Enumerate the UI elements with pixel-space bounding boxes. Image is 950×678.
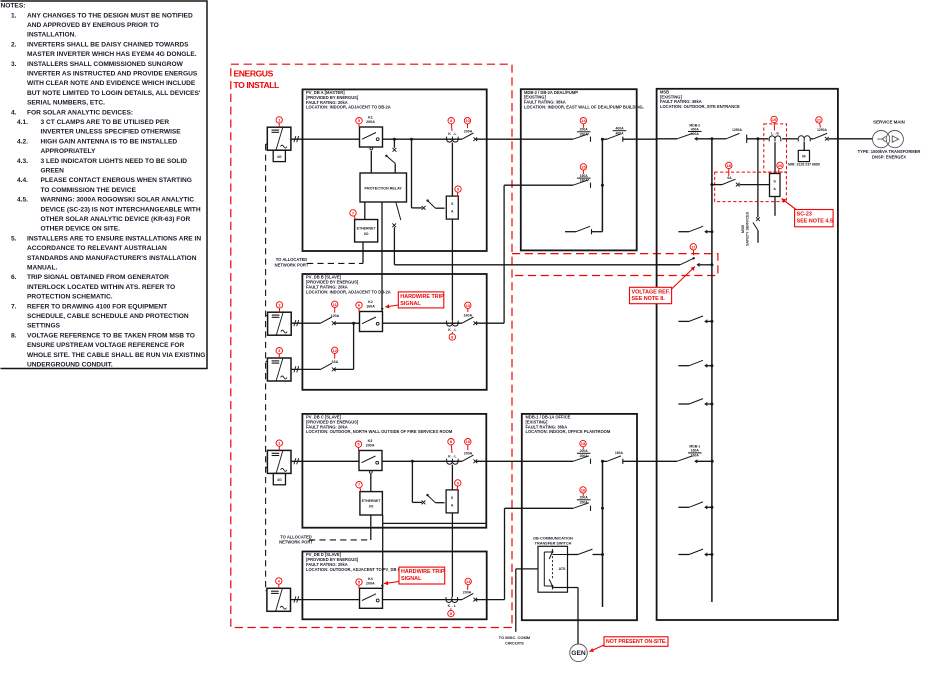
node MDB-2 bus top	[601, 138, 604, 141]
inverter 4	[267, 588, 291, 611]
breaker 11 100A	[321, 317, 332, 323]
svg-text:WITH CLEAR NOTE AND EVIDENCE W: WITH CLEAR NOTE AND EVIDENCE WHICH INCLU…	[27, 80, 196, 87]
SA to B CT sense wire	[451, 219, 453, 320]
svg-text:CIRCUITS: CIRCUITS	[505, 641, 524, 646]
CT 8 PV_DB B	[447, 323, 459, 326]
hardwire trip line C ethernet to PV_DB D	[382, 515, 384, 588]
svg-text:MSB: MSB	[741, 225, 745, 234]
svg-text:200A: 200A	[366, 581, 375, 585]
MSB spare row 2	[678, 320, 689, 322]
contactor K2	[360, 312, 383, 332]
MDB-2 outgoing 400A switch	[613, 130, 627, 132]
ethernet io A	[355, 220, 378, 243]
CT sense wire A	[451, 143, 453, 197]
wire CT19 region	[782, 138, 798, 140]
svg-text:SIGNAL: SIGNAL	[401, 576, 422, 582]
svg-text:I/O: I/O	[369, 504, 374, 508]
svg-text:4G: 4G	[277, 478, 282, 482]
svg-text:200A: 200A	[580, 449, 589, 453]
svg-text:3 CT CLAMPS ARE TO BE UTILISED: 3 CT CLAMPS ARE TO BE UTILISED PER	[41, 119, 170, 126]
svg-text:TRANSFER SWITCH: TRANSFER SWITCH	[535, 541, 572, 545]
SA sense from CT19	[774, 142, 776, 173]
svg-text:PROTECTION SCHEMATIC.: PROTECTION SCHEMATIC.	[27, 294, 113, 301]
svg-text:400A: 400A	[691, 132, 700, 136]
svg-text:LOCATION: OUTDOOR, NORTH WALL: LOCATION: OUTDOOR, NORTH WALL OUTSIDE OF…	[306, 429, 453, 434]
voltage ref label	[630, 287, 672, 303]
svg-text:VOLTAGE REF.: VOLTAGE REF.	[632, 289, 671, 295]
svg-text:LOCATION: INDOOR, ADJACENT TO: LOCATION: INDOOR, ADJACENT TO DB-2A	[306, 289, 391, 294]
contactor K4	[360, 588, 383, 608]
protection relay U1	[360, 173, 407, 202]
svg-text:SC-23: SC-23	[797, 212, 812, 218]
svg-text:1.: 1.	[11, 12, 17, 19]
svg-text:TYPE: 1500kVA TRANSFORMER: TYPE: 1500kVA TRANSFORMER	[858, 149, 921, 154]
svg-text:200A: 200A	[366, 444, 375, 448]
contactor K3	[359, 451, 382, 471]
svg-text:4.2.: 4.2.	[17, 138, 28, 145]
wire inverter1 to PV_DB A	[291, 138, 360, 140]
breaker 10 200A	[462, 133, 473, 139]
inverter 1 PV_DB C	[267, 450, 291, 473]
svg-text:13: 13	[466, 303, 471, 308]
svg-text:K→L: K→L	[448, 604, 457, 608]
svg-text:100A: 100A	[331, 314, 340, 318]
MSB spare row 4	[678, 403, 689, 405]
svg-text:WHOLE SITE. THE CABLE SHALL BE: WHOLE SITE. THE CABLE SHALL BE RUN VIA E…	[27, 352, 205, 359]
svg-text:SEE NOTE 4.5: SEE NOTE 4.5	[797, 218, 833, 224]
svg-text:160A: 160A	[366, 305, 375, 309]
CT 8 PV_DB D	[446, 600, 458, 603]
svg-text:SAFETY SERVICES: SAFETY SERVICES	[746, 211, 750, 246]
CT 8 PV_DB C	[447, 461, 459, 464]
svg-text:K1: K1	[368, 116, 373, 120]
svg-text:21: 21	[817, 117, 822, 122]
svg-text:ETHERNET: ETHERNET	[362, 499, 382, 503]
riser PV_DB D to MDB-1 row2	[504, 508, 506, 599]
svg-text:K3: K3	[368, 439, 373, 443]
svg-text:15: 15	[581, 164, 586, 169]
svg-text:I/O: I/O	[364, 232, 369, 236]
svg-text:10: 10	[465, 118, 470, 123]
MSB spare row 5	[678, 506, 689, 508]
svg-text:HARDWIRE TRIP: HARDWIRE TRIP	[400, 294, 444, 300]
svg-text:NOT PRESENT ON-SITE.: NOT PRESENT ON-SITE.	[606, 639, 667, 645]
ATS to generator wire	[552, 587, 578, 589]
MSB MDB-1 feed breaker	[688, 452, 702, 454]
svg-text:DB-COMMUNICATION: DB-COMMUNICATION	[533, 536, 573, 540]
svg-text:160A: 160A	[464, 314, 473, 318]
svg-text:16: 16	[581, 487, 586, 492]
wire K3 to breaker	[382, 460, 462, 462]
svg-text:7.: 7.	[11, 303, 17, 310]
svg-text:DNSP: ENERGEX: DNSP: ENERGEX	[872, 155, 906, 160]
svg-text:13: 13	[466, 579, 471, 584]
svg-text:K→L: K→L	[448, 454, 457, 458]
wire contactor K1 to protection relay	[370, 151, 372, 173]
MDB-1 row2 breaker 16	[577, 499, 591, 501]
svg-text:ACCORDANCE TO RELEVANT AUSTRAL: ACCORDANCE TO RELEVANT AUSTRALIAN	[27, 245, 167, 252]
voltage-ref dashed corridor	[512, 254, 718, 276]
svg-text:LOCATION: OUTDOOR, ADJACENT TO: LOCATION: OUTDOOR, ADJACENT TO PV_DB C	[306, 567, 401, 572]
svg-text:REFER TO DRAWING 4100 FOR EQUI: REFER TO DRAWING 4100 FOR EQUIPMENT	[27, 303, 167, 310]
svg-text:OTHER SOLAR ANALYTIC DEVICE (K: OTHER SOLAR ANALYTIC DEVICE (KR-63) FOR	[41, 216, 191, 223]
distribution board PV_DB A	[303, 89, 487, 251]
wire K2 to breaker 13	[383, 322, 463, 324]
svg-text:TRIP SIGNAL OBTAINED FROM GENE: TRIP SIGNAL OBTAINED FROM GENERATOR	[27, 274, 169, 281]
svg-text:12: 12	[332, 348, 337, 353]
svg-text:160A: 160A	[580, 174, 589, 178]
svg-text:SEE NOTE 8.: SEE NOTE 8.	[632, 296, 666, 302]
MDB-2 spare row	[565, 231, 576, 233]
svg-text:TO INSTALL: TO INSTALL	[234, 80, 280, 90]
SA to D CT sense wire	[451, 513, 453, 597]
wire inverter4 out	[291, 599, 360, 601]
meter M	[803, 142, 805, 151]
svg-text:TO MISC. COMM: TO MISC. COMM	[499, 635, 531, 640]
svg-text:INVERTER AS INSTRUCTED AND PRO: INVERTER AS INSTRUCTED AND PROVIDE ENERG…	[27, 71, 198, 78]
svg-text:MANUAL.: MANUAL.	[27, 265, 58, 272]
wire breaker12 to riser	[334, 368, 354, 370]
SC-23 label	[795, 210, 834, 227]
svg-text:STANDARDS AND MANUFACTURER'S I: STANDARDS AND MANUFACTURER'S INSTALLATIO…	[27, 255, 197, 262]
svg-text:LOCATION: INDOOR, OFFICE PLANT: LOCATION: INDOOR, OFFICE PLANTROOM	[526, 429, 611, 434]
svg-text:18: 18	[727, 163, 732, 168]
MSB spare row 3	[678, 365, 689, 367]
svg-text:3.: 3.	[11, 61, 17, 68]
svg-text:160A: 160A	[691, 454, 700, 458]
svg-text:OTHER DEVICE ON SITE.: OTHER DEVICE ON SITE.	[41, 226, 121, 233]
inverter 2	[268, 312, 292, 335]
svg-text:SIGNAL: SIGNAL	[400, 301, 421, 307]
safety services feeder	[756, 137, 759, 140]
svg-text:4.1.: 4.1.	[17, 119, 28, 126]
wire K1 to breaker 10	[383, 138, 463, 140]
svg-text:17: 17	[691, 244, 696, 249]
MDB-2 bus	[601, 139, 603, 232]
node C SA branch	[411, 460, 414, 463]
svg-text:200A: 200A	[464, 452, 473, 456]
wire inverterC out	[291, 460, 359, 462]
hardwire trip line relay to K2	[381, 202, 383, 312]
svg-text:160A: 160A	[691, 449, 700, 453]
svg-text:UNDERGROUND CONDUIT.: UNDERGROUND CONDUIT.	[27, 362, 113, 369]
svg-text:NOTES:: NOTES:	[1, 3, 26, 10]
svg-text:AND APPROVED BY ENERGUS PRIOR: AND APPROVED BY ENERGUS PRIOR TO	[27, 22, 159, 29]
service main transformer	[873, 131, 890, 148]
distribution board PV_DB C	[302, 414, 486, 528]
node B riser	[352, 322, 355, 325]
svg-text:3 LED INDICATOR LIGHTS NEED TO: 3 LED INDICATOR LIGHTS NEED TO BE SOLID	[41, 158, 188, 165]
node MSB bus top	[710, 137, 713, 140]
solar analytic device 9 PV_DB A	[446, 196, 458, 219]
inverter 3	[267, 358, 291, 381]
inverter 1 (master)	[267, 127, 291, 150]
svg-text:INVERTER UNLESS SPECIFIED OTHE: INVERTER UNLESS SPECIFIED OTHERWISE	[41, 129, 182, 136]
svg-text:INVERTERS SHALL BE DAISY CHAIN: INVERTERS SHALL BE DAISY CHAINED TOWARDS	[27, 41, 189, 48]
svg-text:4.3.: 4.3.	[17, 158, 28, 165]
svg-text:400A: 400A	[691, 127, 700, 131]
svg-text:ENSURE UPSTREAM VOLTAGE REFERE: ENSURE UPSTREAM VOLTAGE REFERENCE FOR	[27, 342, 185, 349]
svg-text:200A: 200A	[366, 120, 375, 124]
svg-text:PLEASE CONTACT ENERGUS WHEN ST: PLEASE CONTACT ENERGUS WHEN STARTING	[41, 177, 192, 184]
svg-text:4.4.: 4.4.	[17, 177, 28, 184]
svg-text:NETWORK PORT: NETWORK PORT	[275, 262, 309, 267]
MDB-2 row2 breaker 15	[577, 177, 591, 179]
MDB-1 bus	[602, 461, 604, 607]
svg-text:1250A: 1250A	[817, 128, 828, 132]
wire PV_DB B output	[475, 322, 504, 324]
ATS top out wire	[552, 554, 578, 556]
svg-text:DEVICE (SC-23) IS NOT INTERCHA: DEVICE (SC-23) IS NOT INTERCHANGEABLE WI…	[41, 206, 201, 213]
distribution board PV_DB B	[302, 274, 486, 390]
svg-text:HIGH GAIN ANTENNA IS TO BE INS: HIGH GAIN ANTENNA IS TO BE INSTALLED	[41, 138, 178, 145]
svg-text:LOCATION: INDOOR, EAST WALL OF: LOCATION: INDOOR, EAST WALL OF DEAL/PUMP…	[524, 105, 644, 110]
solar analytic device 9 PV_DB C	[446, 490, 458, 513]
distribution board PV_DB D	[302, 552, 486, 620]
wire to breaker 21	[811, 138, 814, 140]
svg-text:14: 14	[581, 118, 586, 123]
svg-text:8.: 8.	[11, 332, 17, 339]
red dashed box CT 19	[764, 124, 787, 172]
CT 19 rogowski	[769, 136, 781, 139]
MDB-2 incomer breaker 14	[577, 131, 591, 133]
svg-text:10: 10	[466, 439, 471, 444]
svg-text:GREEN: GREEN	[41, 168, 65, 175]
MSB SA breaker 18 6A row	[710, 183, 713, 186]
svg-text:FOR SOLAR ANALYTIC DEVICES:: FOR SOLAR ANALYTIC DEVICES:	[27, 109, 133, 116]
svg-text:ETHERNET: ETHERNET	[357, 227, 377, 231]
ATS to misc comm wire	[516, 568, 538, 570]
svg-text:200A: 200A	[464, 130, 473, 134]
wire inverter2 out	[291, 322, 320, 324]
wire breaker11 to K2	[334, 322, 360, 324]
riser PV_DB B to MDB-2 row2	[503, 185, 505, 323]
wire K3 to ethernet io C	[370, 474, 372, 492]
MDB-1 incomer breaker 15	[577, 452, 591, 454]
breaker 10 200A PV_DB C	[462, 455, 473, 461]
wire PV_DB A output to MDB-2 board	[475, 138, 573, 140]
svg-text:2.: 2.	[11, 41, 17, 48]
hardwire trip label B	[398, 292, 444, 308]
svg-text:6A: 6A	[727, 176, 732, 180]
svg-text:63A: 63A	[332, 360, 339, 364]
wire inverter3 out	[291, 368, 321, 370]
svg-text:TO COMMISSION THE DEVICE: TO COMMISSION THE DEVICE	[41, 187, 137, 194]
svg-text:ENERGUS: ENERGUS	[234, 68, 274, 78]
svg-text:LOCATION: INDOOR, ADJACENT TO: LOCATION: INDOOR, ADJACENT TO DB-2A	[306, 105, 391, 110]
svg-text:400A: 400A	[615, 127, 624, 131]
wire K4 to breaker D	[383, 599, 463, 601]
svg-text:K→L: K→L	[448, 132, 457, 136]
relay voltage-ref contact	[396, 202, 401, 220]
wire SA branch C	[411, 461, 413, 502]
svg-text:K→L: K→L	[448, 328, 457, 332]
svg-text:15: 15	[581, 441, 586, 446]
svg-text:NETWORK PORT: NETWORK PORT	[279, 539, 313, 544]
svg-text:VOLTAGE REFERENCE TO BE TAKEN: VOLTAGE REFERENCE TO BE TAKEN FROM MSB T…	[27, 332, 195, 339]
switchboard MDB-1 / DB-1A	[522, 414, 637, 620]
contactor K1	[360, 127, 383, 147]
svg-text:INSTALLERS SHALL COMMISSIONED: INSTALLERS SHALL COMMISSIONED SUNGROW	[27, 61, 184, 68]
voltage ref breaker 17	[657, 264, 680, 266]
switchboard MDB-2 / DB-2A	[521, 89, 637, 250]
svg-text:200A: 200A	[580, 128, 589, 132]
ethernet io C	[360, 492, 383, 515]
to allocated network port A	[362, 242, 364, 263]
inverter daisy-chain comm dashed line	[265, 144, 267, 590]
svg-text:BUT NOTE LIMITED TO LOGIN DETA: BUT NOTE LIMITED TO LOGIN DETAILS, ALL D…	[27, 90, 201, 97]
generator GEN	[570, 644, 588, 662]
svg-text:APPROPRIATELY: APPROPRIATELY	[41, 148, 97, 155]
breaker 12 63A	[321, 363, 332, 369]
svg-text:ATS: ATS	[559, 567, 567, 571]
svg-text:INSTALLATION.: INSTALLATION.	[27, 32, 76, 39]
svg-text:INTERLOCK LOCATED WITHIN ATS.: INTERLOCK LOCATED WITHIN ATS. REFER TO	[27, 284, 175, 291]
riser inverter3 to node	[353, 323, 355, 369]
wire SA branch A	[411, 139, 413, 208]
wire PV_DB D output	[475, 599, 504, 601]
ATS bracket	[543, 552, 545, 586]
ENERGUS TO INSTALL dashed boundary	[231, 64, 512, 627]
svg-text:1250A: 1250A	[732, 128, 743, 132]
svg-text:160A: 160A	[615, 451, 624, 455]
svg-text:L→K: L→K	[771, 131, 779, 135]
not present on-site label	[604, 637, 668, 647]
svg-text:ANY CHANGES TO THE DESIGN MUST: ANY CHANGES TO THE DESIGN MUST BE NOTIFI…	[27, 12, 193, 19]
svg-text:200A: 200A	[580, 496, 589, 500]
solar analytic device 20 MSB	[770, 174, 781, 197]
metering CT	[798, 136, 810, 139]
svg-text:HARDWIRE TRIP: HARDWIRE TRIP	[401, 569, 445, 575]
MDB-1 ATS row	[568, 554, 579, 556]
svg-text:SCHEDULE, CABLE SCHEDULE AND P: SCHEDULE, CABLE SCHEDULE AND PROTECTION	[27, 313, 189, 320]
svg-text:20: 20	[778, 163, 783, 168]
svg-text:6.: 6.	[11, 274, 17, 281]
hardwire trip label D	[399, 567, 445, 584]
svg-text:GEN: GEN	[571, 650, 586, 657]
MSB bus	[711, 139, 713, 602]
breaker 13 160A	[462, 317, 473, 323]
svg-text:4G: 4G	[277, 155, 282, 159]
svg-text:4.: 4.	[11, 109, 17, 116]
svg-text:WARNING: 3000A ROGOWSKI SOLAR: WARNING: 3000A ROGOWSKI SOLAR ANALYTIC	[41, 197, 195, 204]
svg-text:SETTINGS: SETTINGS	[27, 323, 61, 330]
svg-text:NMI: 3128 237 6889: NMI: 3128 237 6889	[788, 163, 820, 167]
svg-text:MASTER INVERTER WHICH HAS EYEM: MASTER INVERTER WHICH HAS EYEM4 4G DONGL…	[27, 51, 197, 58]
wire relay to ethernet io	[364, 202, 366, 220]
svg-text:K2: K2	[368, 300, 373, 304]
svg-text:PROTECTION RELAY: PROTECTION RELAY	[365, 187, 403, 191]
node MDB-1 bus top	[601, 460, 604, 463]
MSB spare row 6	[678, 554, 689, 556]
protection relay trip contact	[393, 139, 395, 148]
breaker 13 200A PV_DB D	[462, 593, 473, 599]
svg-text:SERIAL NUMBERS, ETC.: SERIAL NUMBERS, ETC.	[27, 100, 105, 107]
CT 8 PV_DB A	[447, 139, 459, 142]
svg-text:SERVICE MAIN: SERVICE MAIN	[873, 120, 905, 125]
node main A	[393, 138, 396, 141]
to allocated network port C	[370, 515, 372, 540]
CT sense wire C	[451, 465, 453, 490]
svg-text:4.5.: 4.5.	[17, 197, 28, 204]
svg-text:19: 19	[772, 117, 777, 122]
notes box	[1, 1, 208, 369]
wire PV_DB C output to MDB-1	[475, 460, 573, 462]
svg-text:200A: 200A	[463, 590, 472, 594]
svg-text:LOCATION: OUTDOOR, SITE ENTRAN: LOCATION: OUTDOOR, SITE ENTRANCE	[660, 104, 740, 109]
red dashed box SA 18-20	[715, 172, 787, 202]
voltage reference wire to MSB	[393, 227, 395, 264]
switchboard MSB	[657, 89, 838, 620]
svg-text:INSTALLERS ARE TO ENSURE INSTA: INSTALLERS ARE TO ENSURE INSTALLATIONS A…	[27, 235, 201, 242]
MSB spare row 1	[678, 231, 689, 233]
svg-text:5.: 5.	[11, 235, 17, 242]
MSB MDB-2 feed breaker	[688, 131, 702, 133]
